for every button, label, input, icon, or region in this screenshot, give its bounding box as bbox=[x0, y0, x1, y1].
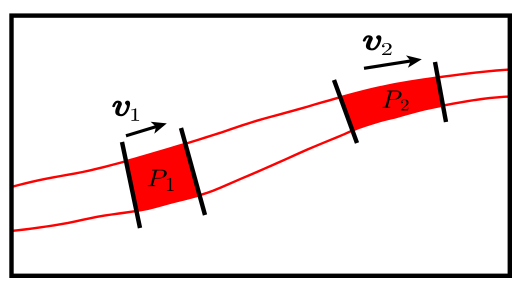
label P2 bbox=[382, 91, 401, 108]
label v1 bbox=[113, 101, 129, 115]
cross-section tick left of P1 bbox=[122, 142, 140, 228]
label v2 bbox=[364, 36, 381, 50]
flow patch P2 fill bbox=[340, 77, 443, 130]
velocity arrow v1 bbox=[126, 126, 157, 135]
streamline top boundary of flow tube bbox=[10, 69, 511, 187]
cross-section tick right of P1 bbox=[181, 128, 205, 215]
flow patch P1 fill bbox=[126, 144, 200, 211]
velocity arrow v2 bbox=[364, 61, 412, 69]
cross-section tick right of P2 bbox=[435, 62, 446, 122]
label P1 bbox=[148, 170, 167, 186]
streamline bottom boundary of flow tube bbox=[10, 97, 511, 232]
cross-section tick left of P2 bbox=[334, 80, 357, 143]
